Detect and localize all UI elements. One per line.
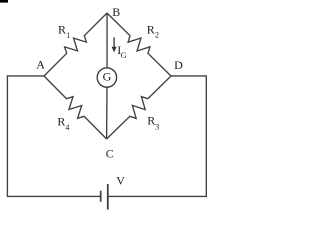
svg-text:R: R <box>147 114 155 128</box>
svg-text:2: 2 <box>155 31 159 40</box>
svg-text:1: 1 <box>66 31 70 40</box>
svg-text:R: R <box>58 23 66 37</box>
svg-text:V: V <box>116 174 125 188</box>
svg-text:G: G <box>121 51 127 60</box>
svg-text:G: G <box>103 70 112 84</box>
svg-text:3: 3 <box>155 122 159 131</box>
svg-text:C: C <box>106 147 114 161</box>
svg-text:R: R <box>147 23 155 37</box>
svg-text:A: A <box>36 58 45 72</box>
svg-text:4: 4 <box>65 123 69 132</box>
svg-text:D: D <box>174 58 183 72</box>
svg-text:R: R <box>57 114 65 128</box>
svg-text:B: B <box>112 5 120 19</box>
